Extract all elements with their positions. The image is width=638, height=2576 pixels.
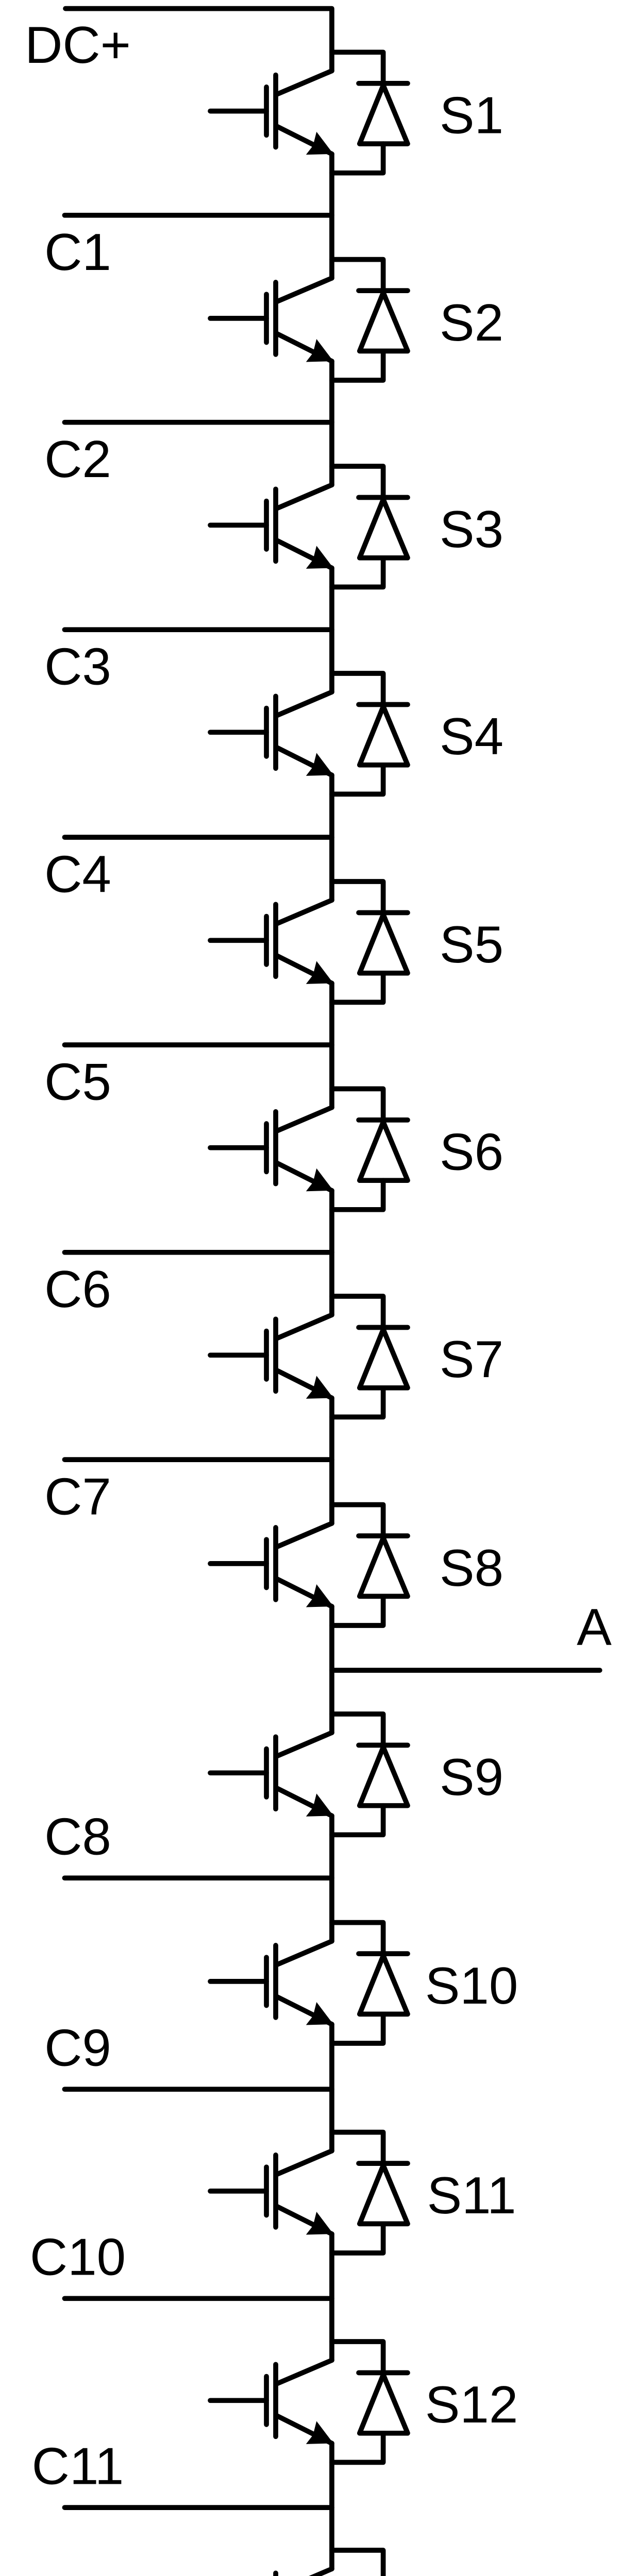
svg-text:S8: S8	[440, 1538, 503, 1597]
svg-text:S12: S12	[425, 2375, 518, 2434]
svg-text:C9: C9	[44, 2019, 111, 2077]
svg-text:S7: S7	[440, 1330, 503, 1388]
svg-text:S6: S6	[440, 1123, 503, 1181]
svg-text:C10: C10	[30, 2228, 126, 2286]
svg-text:DC+: DC+	[25, 15, 131, 74]
svg-text:A: A	[577, 1598, 612, 1656]
svg-text:S3: S3	[440, 500, 503, 558]
svg-text:S9: S9	[440, 1748, 503, 1806]
svg-text:C8: C8	[44, 1807, 111, 1866]
svg-text:S10: S10	[425, 1956, 518, 2015]
svg-text:S4: S4	[440, 707, 503, 766]
svg-text:C3: C3	[44, 637, 111, 696]
svg-text:S5: S5	[440, 915, 503, 974]
svg-text:S2: S2	[440, 293, 503, 352]
svg-text:S1: S1	[440, 86, 503, 145]
svg-text:C2: C2	[44, 430, 111, 488]
svg-text:C7: C7	[44, 1467, 111, 1526]
svg-text:C1: C1	[44, 223, 111, 281]
svg-text:S11: S11	[427, 2166, 516, 2225]
svg-text:C6: C6	[44, 1260, 111, 1318]
svg-text:C5: C5	[44, 1053, 111, 1111]
svg-text:C4: C4	[44, 845, 111, 904]
svg-text:C11: C11	[32, 2436, 124, 2495]
